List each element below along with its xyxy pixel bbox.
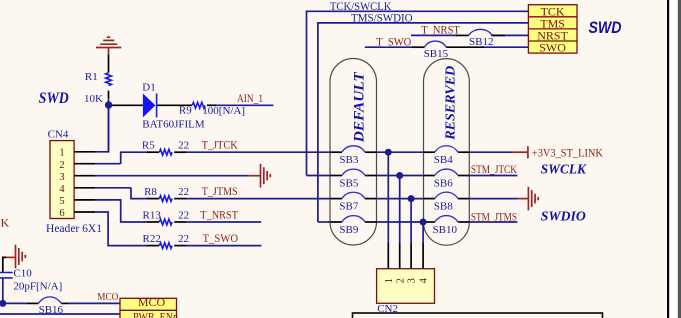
svg-text:SWO: SWO xyxy=(539,41,566,55)
svg-text:SB15: SB15 xyxy=(424,48,449,60)
svg-text:SB6: SB6 xyxy=(434,177,453,189)
svg-text:R13: R13 xyxy=(143,210,162,222)
svg-text:SB9: SB9 xyxy=(339,224,358,236)
svg-text:SB12: SB12 xyxy=(469,36,493,48)
svg-text:CN4: CN4 xyxy=(48,129,69,141)
svg-text:100[N/A]: 100[N/A] xyxy=(202,105,245,117)
svg-text:SWCLK: SWCLK xyxy=(541,162,588,177)
svg-text:3: 3 xyxy=(407,278,418,283)
svg-text:TMS/SWDIO: TMS/SWDIO xyxy=(351,11,413,25)
svg-text:22: 22 xyxy=(178,186,189,198)
svg-text:1: 1 xyxy=(384,278,395,283)
svg-text:SB5: SB5 xyxy=(339,177,358,189)
svg-text:R5: R5 xyxy=(142,140,155,152)
svg-text:SB4: SB4 xyxy=(434,154,453,166)
svg-text:R9: R9 xyxy=(179,105,192,117)
svg-text:2: 2 xyxy=(395,278,406,283)
svg-text:SB8: SB8 xyxy=(434,200,453,212)
svg-text:10K: 10K xyxy=(84,93,103,105)
svg-text:C10: C10 xyxy=(13,268,32,280)
svg-text:Header 6X1: Header 6X1 xyxy=(46,221,102,235)
svg-text:20pF[N/A]: 20pF[N/A] xyxy=(13,281,62,293)
svg-text:BAT60JFILM: BAT60JFILM xyxy=(142,118,205,130)
svg-text:DEFAULT: DEFAULT xyxy=(351,71,367,143)
svg-text:STM_JTCK: STM_JTCK xyxy=(471,162,517,176)
svg-text:1: 1 xyxy=(59,148,64,159)
svg-text:R8: R8 xyxy=(144,186,157,198)
svg-text:22: 22 xyxy=(178,210,189,222)
svg-text:4: 4 xyxy=(59,184,65,195)
svg-text:SWD: SWD xyxy=(589,18,622,37)
svg-text:D1: D1 xyxy=(142,82,155,94)
svg-text:T_JTCK: T_JTCK xyxy=(202,138,238,152)
svg-text:CN2: CN2 xyxy=(377,303,398,315)
svg-text:K: K xyxy=(1,216,10,230)
svg-text:R1: R1 xyxy=(85,71,98,83)
svg-text:6: 6 xyxy=(59,208,64,219)
svg-text:SWDIO: SWDIO xyxy=(541,210,586,225)
svg-text:PWR_ENn: PWR_ENn xyxy=(133,309,178,318)
svg-text:STM_JTMS: STM_JTMS xyxy=(471,209,517,223)
svg-text:MCO: MCO xyxy=(138,295,166,309)
svg-text:SB16: SB16 xyxy=(39,304,64,316)
svg-text:T_NRST: T_NRST xyxy=(421,23,460,37)
svg-text:SB3: SB3 xyxy=(339,154,358,166)
svg-text:22: 22 xyxy=(178,233,189,245)
svg-text:+3V3_ST_LINK: +3V3_ST_LINK xyxy=(532,146,603,160)
svg-text:R22: R22 xyxy=(143,233,161,245)
svg-text:T_JTMS: T_JTMS xyxy=(202,184,238,198)
svg-text:T_SWO: T_SWO xyxy=(376,35,411,49)
svg-text:T_NRST: T_NRST xyxy=(200,208,238,222)
svg-text:5: 5 xyxy=(59,196,64,207)
svg-text:2: 2 xyxy=(59,160,64,171)
svg-text:3: 3 xyxy=(59,172,64,183)
svg-text:SB7: SB7 xyxy=(339,200,358,212)
svg-text:SWD: SWD xyxy=(39,90,69,107)
svg-text:4: 4 xyxy=(419,277,430,283)
svg-text:AIN_1: AIN_1 xyxy=(237,91,263,105)
svg-text:T_SWO: T_SWO xyxy=(203,231,239,245)
svg-text:RESERVED: RESERVED xyxy=(443,66,458,141)
svg-text:MCO: MCO xyxy=(97,291,118,303)
svg-text:22: 22 xyxy=(178,140,189,152)
svg-text:SB10: SB10 xyxy=(433,224,458,236)
